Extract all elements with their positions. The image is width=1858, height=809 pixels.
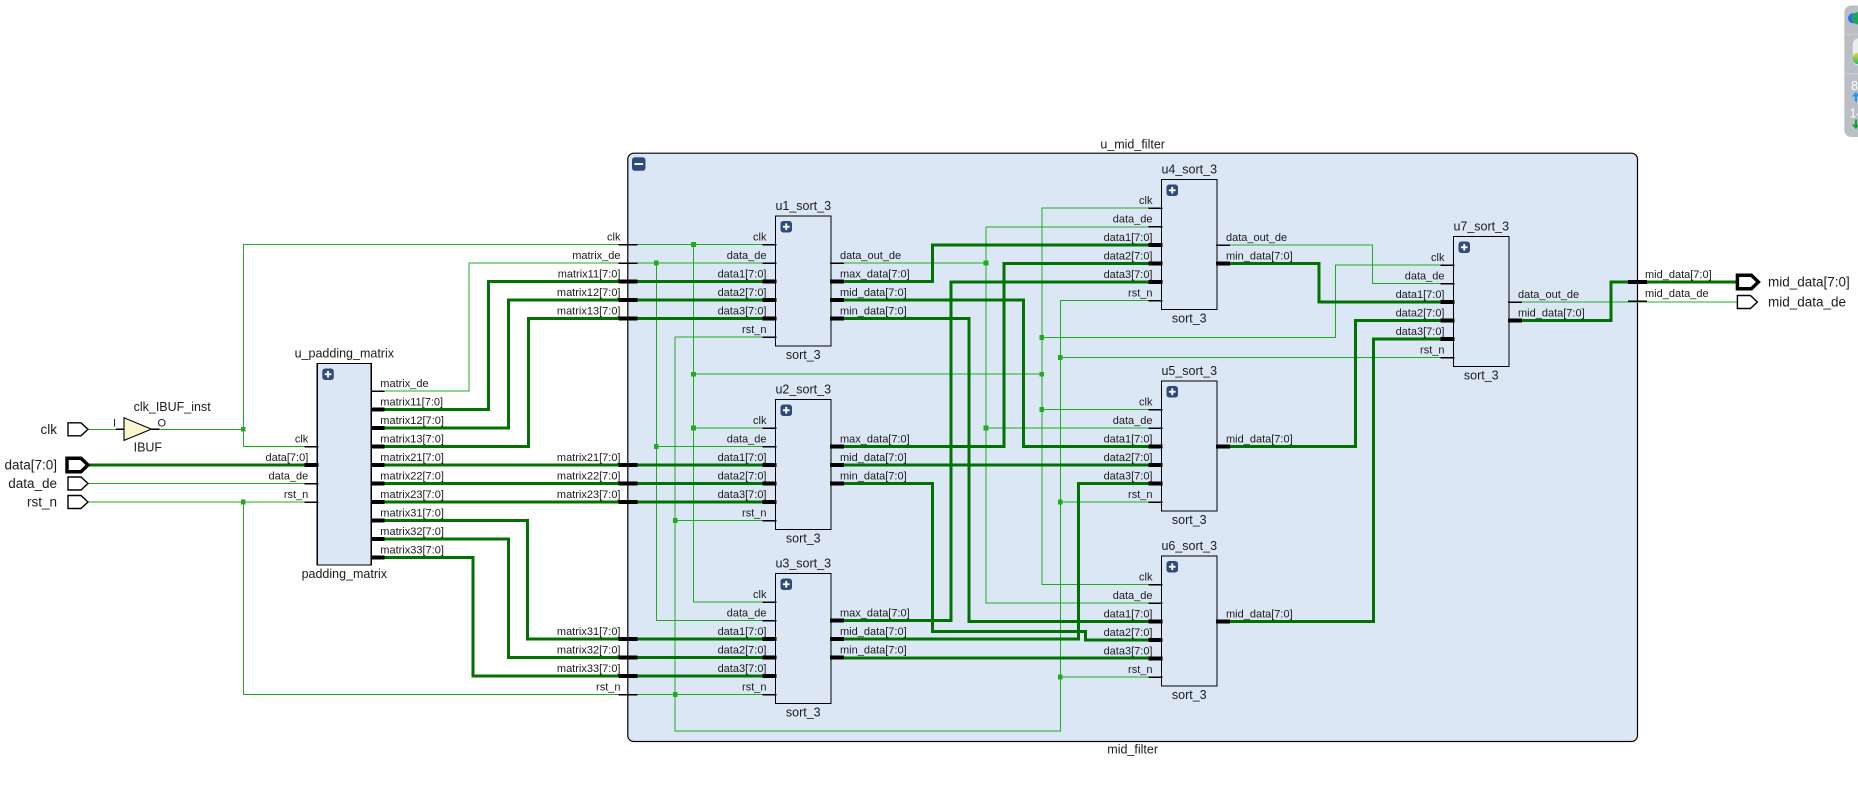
svg-text:mid_data[7:0]: mid_data[7:0] (840, 626, 907, 638)
svg-text:data_de: data_de (1113, 214, 1153, 226)
svg-text:rst_n: rst_n (1128, 288, 1152, 300)
svg-text:matrix33[7:0]: matrix33[7:0] (380, 545, 444, 557)
svg-text:mid_data[7:0]: mid_data[7:0] (840, 287, 907, 299)
svg-text:u_padding_matrix: u_padding_matrix (295, 347, 395, 361)
svg-text:matrix21[7:0]: matrix21[7:0] (380, 452, 444, 464)
svg-text:data1[7:0]: data1[7:0] (718, 269, 767, 281)
svg-text:data_out_de: data_out_de (1518, 289, 1579, 301)
svg-text:max_data[7:0]: max_data[7:0] (840, 608, 910, 620)
svg-text:matrix11[7:0]: matrix11[7:0] (380, 397, 443, 409)
svg-text:clk: clk (753, 589, 767, 601)
svg-text:clk: clk (753, 232, 767, 244)
svg-text:data3[7:0]: data3[7:0] (1104, 269, 1153, 281)
svg-text:rst_n: rst_n (1128, 664, 1152, 676)
svg-text:data2[7:0]: data2[7:0] (1396, 308, 1445, 320)
svg-text:data3[7:0]: data3[7:0] (718, 663, 767, 675)
svg-text:data3[7:0]: data3[7:0] (1104, 471, 1153, 483)
svg-text:u7_sort_3: u7_sort_3 (1453, 220, 1509, 234)
svg-text:data[7:0]: data[7:0] (265, 452, 308, 464)
svg-text:sort_3: sort_3 (1172, 513, 1207, 527)
svg-text:clk: clk (1139, 572, 1153, 584)
svg-text:sort_3: sort_3 (1172, 688, 1207, 702)
svg-text:matrix32[7:0]: matrix32[7:0] (557, 645, 621, 657)
svg-text:data2[7:0]: data2[7:0] (718, 471, 767, 483)
svg-text:clk: clk (41, 422, 58, 437)
svg-text:matrix31[7:0]: matrix31[7:0] (380, 508, 444, 520)
svg-text:clk: clk (753, 415, 767, 427)
svg-text:matrix32[7:0]: matrix32[7:0] (380, 526, 444, 538)
svg-text:83: 83 (1851, 79, 1858, 93)
svg-text:14: 14 (1850, 107, 1858, 121)
svg-text:rst_n: rst_n (27, 495, 57, 510)
svg-text:u5_sort_3: u5_sort_3 (1161, 364, 1217, 378)
svg-text:matrix12[7:0]: matrix12[7:0] (380, 415, 444, 427)
svg-text:matrix21[7:0]: matrix21[7:0] (557, 452, 621, 464)
svg-text:u_mid_filter: u_mid_filter (1100, 138, 1165, 152)
svg-text:data2[7:0]: data2[7:0] (1104, 627, 1153, 639)
svg-text:matrix22[7:0]: matrix22[7:0] (557, 471, 621, 483)
svg-text:mid_filter: mid_filter (1107, 743, 1158, 757)
svg-text:clk: clk (1139, 397, 1153, 409)
svg-text:matrix_de: matrix_de (380, 378, 428, 390)
svg-text:data2[7:0]: data2[7:0] (718, 645, 767, 657)
svg-text:min_data[7:0]: min_data[7:0] (1226, 251, 1293, 263)
svg-text:data[7:0]: data[7:0] (4, 458, 57, 473)
svg-text:min_data[7:0]: min_data[7:0] (840, 645, 907, 657)
svg-text:mid_data[7:0]: mid_data[7:0] (1645, 269, 1712, 281)
svg-text:sort_3: sort_3 (786, 532, 821, 546)
svg-text:mid_data[7:0]: mid_data[7:0] (1226, 434, 1293, 446)
svg-text:u1_sort_3: u1_sort_3 (775, 199, 831, 213)
svg-text:data1[7:0]: data1[7:0] (1104, 434, 1153, 446)
svg-text:u4_sort_3: u4_sort_3 (1161, 163, 1217, 177)
svg-text:max_data[7:0]: max_data[7:0] (840, 269, 910, 281)
svg-text:data3[7:0]: data3[7:0] (718, 306, 767, 318)
svg-text:matrix_de: matrix_de (572, 250, 620, 262)
svg-text:data2[7:0]: data2[7:0] (718, 287, 767, 299)
svg-text:mid_data[7:0]: mid_data[7:0] (1768, 275, 1850, 290)
svg-text:data3[7:0]: data3[7:0] (1396, 326, 1445, 338)
svg-text:data_de: data_de (727, 608, 767, 620)
svg-text:data_de: data_de (269, 471, 309, 483)
svg-text:rst_n: rst_n (596, 682, 620, 694)
svg-text:mid_data[7:0]: mid_data[7:0] (1226, 609, 1293, 621)
svg-text:O: O (158, 418, 167, 430)
svg-text:data2[7:0]: data2[7:0] (1104, 452, 1153, 464)
svg-text:data3[7:0]: data3[7:0] (718, 489, 767, 501)
svg-text:min_data[7:0]: min_data[7:0] (840, 306, 907, 318)
svg-text:clk_IBUF_inst: clk_IBUF_inst (134, 400, 212, 414)
svg-text:rst_n: rst_n (1420, 345, 1444, 357)
svg-text:clk: clk (607, 232, 621, 244)
svg-text:mid_data_de: mid_data_de (1768, 295, 1846, 310)
svg-text:u6_sort_3: u6_sort_3 (1161, 539, 1217, 553)
svg-text:data_de: data_de (727, 434, 767, 446)
svg-text:matrix13[7:0]: matrix13[7:0] (557, 306, 621, 318)
svg-text:clk: clk (295, 434, 309, 446)
svg-text:data1[7:0]: data1[7:0] (718, 452, 767, 464)
svg-text:matrix12[7:0]: matrix12[7:0] (557, 287, 621, 299)
svg-text:data3[7:0]: data3[7:0] (1104, 646, 1153, 658)
svg-text:matrix23[7:0]: matrix23[7:0] (380, 489, 444, 501)
svg-text:data_out_de: data_out_de (840, 250, 901, 262)
svg-text:rst_n: rst_n (284, 489, 308, 501)
svg-text:u3_sort_3: u3_sort_3 (775, 557, 831, 571)
svg-text:data_de: data_de (727, 250, 767, 262)
svg-text:u2_sort_3: u2_sort_3 (775, 383, 831, 397)
svg-text:sort_3: sort_3 (1172, 312, 1207, 326)
svg-text:sort_3: sort_3 (786, 348, 821, 362)
svg-text:mid_data[7:0]: mid_data[7:0] (840, 452, 907, 464)
svg-text:IBUF: IBUF (134, 441, 163, 455)
svg-text:min_data[7:0]: min_data[7:0] (840, 471, 907, 483)
svg-text:data1[7:0]: data1[7:0] (1104, 232, 1153, 244)
svg-text:matrix11[7:0]: matrix11[7:0] (558, 269, 621, 281)
svg-text:data_out_de: data_out_de (1226, 232, 1287, 244)
svg-text:matrix22[7:0]: matrix22[7:0] (380, 471, 444, 483)
svg-text:data2[7:0]: data2[7:0] (1104, 251, 1153, 263)
svg-text:mid_data_de: mid_data_de (1645, 288, 1709, 300)
svg-text:data1[7:0]: data1[7:0] (1396, 289, 1445, 301)
svg-text:clk: clk (1431, 252, 1445, 264)
svg-text:matrix31[7:0]: matrix31[7:0] (557, 626, 621, 638)
svg-text:rst_n: rst_n (742, 508, 766, 520)
svg-text:data_de: data_de (1113, 590, 1153, 602)
svg-text:rst_n: rst_n (1128, 489, 1152, 501)
svg-text:max_data[7:0]: max_data[7:0] (840, 434, 910, 446)
svg-text:data1[7:0]: data1[7:0] (1104, 609, 1153, 621)
svg-text:data_de: data_de (1405, 271, 1445, 283)
svg-text:matrix33[7:0]: matrix33[7:0] (557, 663, 621, 675)
svg-text:sort_3: sort_3 (1464, 369, 1499, 383)
svg-text:rst_n: rst_n (742, 682, 766, 694)
svg-text:clk: clk (1139, 195, 1153, 207)
svg-text:padding_matrix: padding_matrix (302, 567, 388, 581)
svg-text:mid_data[7:0]: mid_data[7:0] (1518, 308, 1585, 320)
svg-text:matrix23[7:0]: matrix23[7:0] (557, 489, 621, 501)
svg-text:data1[7:0]: data1[7:0] (718, 626, 767, 638)
svg-text:data_de: data_de (1113, 415, 1153, 427)
svg-text:data_de: data_de (8, 476, 57, 491)
svg-text:matrix13[7:0]: matrix13[7:0] (380, 434, 444, 446)
svg-text:sort_3: sort_3 (786, 706, 821, 720)
svg-text:rst_n: rst_n (742, 324, 766, 336)
svg-text:I: I (113, 418, 116, 430)
